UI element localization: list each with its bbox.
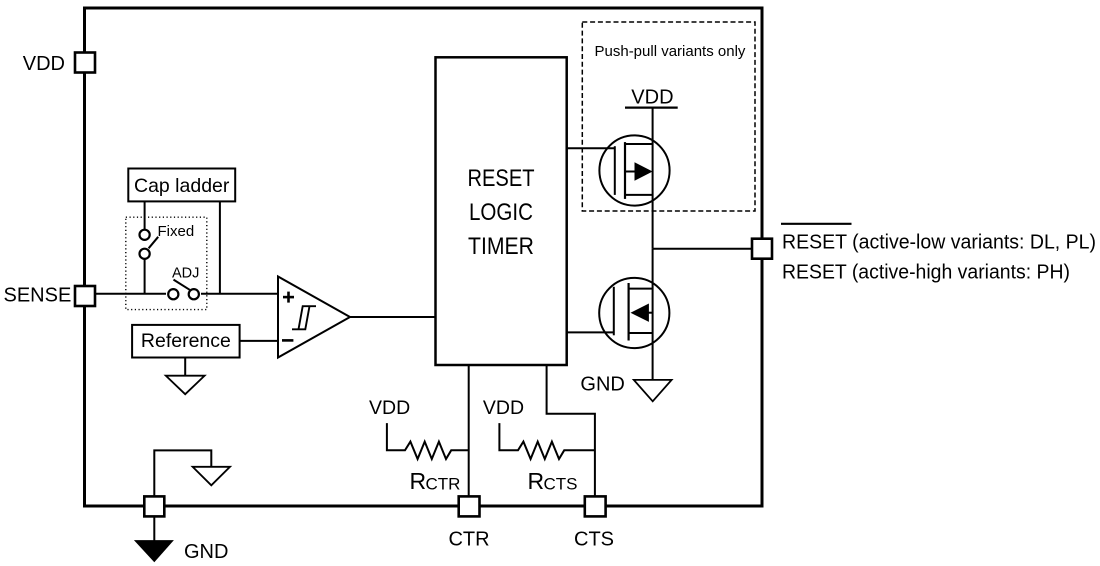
svg-text:SENSE: SENSE bbox=[4, 285, 72, 307]
svg-text:LOGIC: LOGIC bbox=[469, 199, 533, 226]
svg-text:Push-pull variants only: Push-pull variants only bbox=[595, 43, 746, 60]
svg-text:CTR: CTR bbox=[448, 529, 489, 551]
svg-text:ADJ: ADJ bbox=[172, 266, 199, 282]
svg-text:Fixed: Fixed bbox=[158, 223, 195, 240]
svg-text:RESET (active-low variants: DL: RESET (active-low variants: DL, PL) bbox=[782, 231, 1096, 254]
svg-text:VDD: VDD bbox=[369, 397, 410, 419]
svg-text:VDD: VDD bbox=[483, 397, 524, 419]
svg-text:CTR: CTR bbox=[426, 475, 461, 494]
svg-text:RESET: RESET bbox=[468, 165, 535, 192]
svg-text:CTS: CTS bbox=[574, 529, 614, 551]
svg-text:Reference: Reference bbox=[141, 330, 231, 352]
svg-text:R: R bbox=[410, 468, 427, 494]
svg-text:RESET (active-high variants: P: RESET (active-high variants: PH) bbox=[782, 261, 1070, 284]
svg-text:GND: GND bbox=[184, 541, 228, 563]
svg-text:VDD: VDD bbox=[631, 87, 673, 109]
svg-text:VDD: VDD bbox=[23, 53, 65, 75]
svg-text:Cap ladder: Cap ladder bbox=[134, 175, 230, 197]
svg-text:TIMER: TIMER bbox=[468, 233, 534, 260]
svg-text:R: R bbox=[528, 468, 545, 494]
svg-text:CTS: CTS bbox=[544, 475, 578, 494]
svg-text:GND: GND bbox=[580, 374, 624, 396]
